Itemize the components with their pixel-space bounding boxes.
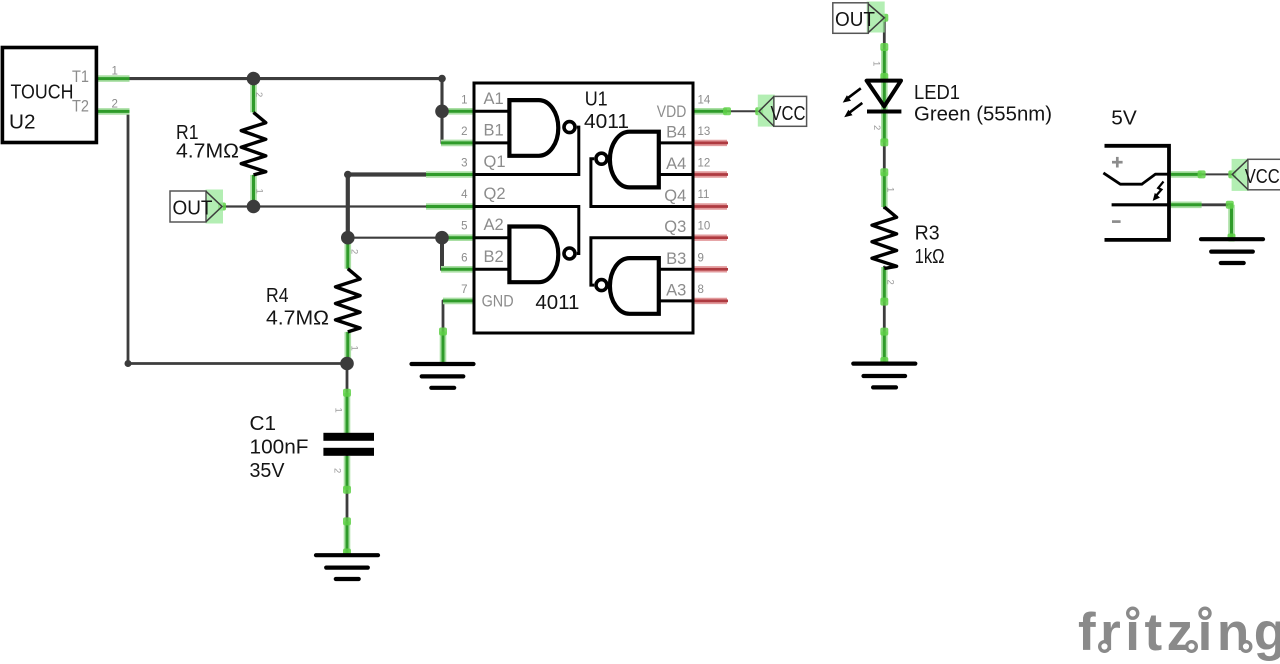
- touch sensor U2 box: [2, 48, 96, 143]
- svg-text:A3: A3: [666, 281, 686, 299]
- gate 3 output wire to Q2: [474, 207, 579, 254]
- svg-text:B1: B1: [484, 121, 504, 139]
- svg-text:OUT: OUT: [173, 197, 213, 220]
- wire C1 top: [346, 364, 349, 434]
- svg-text:B3: B3: [666, 250, 686, 268]
- svg-text:2: 2: [349, 249, 360, 254]
- svg-text:7: 7: [461, 284, 467, 296]
- resistor R4: [336, 269, 361, 332]
- resistor R1 pin bottom: [250, 175, 257, 207]
- wire 5V minus to ground: [1169, 205, 1232, 238]
- svg-text:4: 4: [461, 189, 468, 201]
- svg-text:B4: B4: [666, 123, 686, 141]
- ground under IC pin7: [412, 364, 474, 388]
- wire pin7 to ground: [442, 301, 445, 362]
- junction dot T1/R1: [247, 72, 261, 86]
- LED arrow 2: [844, 103, 862, 117]
- svg-text:Q4: Q4: [664, 187, 686, 205]
- ground under R3: [853, 364, 915, 388]
- resistor R1 pin top: [250, 79, 257, 113]
- svg-text:GND: GND: [482, 292, 514, 310]
- green LED pin 1: [881, 49, 888, 111]
- svg-text:LED1: LED1: [914, 81, 960, 104]
- svg-text:35V: 35V: [250, 459, 285, 482]
- svg-text:14: 14: [698, 94, 711, 106]
- svg-text:T1: T1: [72, 68, 89, 86]
- gate 4 input stubs: [659, 269, 693, 301]
- green wire pin7 ground end: [440, 332, 447, 366]
- svg-text:C1: C1: [250, 412, 277, 435]
- LED arrow 1: [843, 88, 861, 102]
- gate 3 bubble: [564, 248, 575, 259]
- svg-text:1kΩ: 1kΩ: [915, 245, 945, 268]
- svg-text:3: 3: [461, 158, 467, 170]
- wire R4 top junction to pin5 junction: [348, 237, 442, 239]
- svg-text:VCC: VCC: [771, 102, 806, 125]
- svg-text:11: 11: [698, 189, 710, 201]
- junction dot T2/R4/C1: [340, 357, 354, 371]
- svg-text:VCC: VCC: [1245, 165, 1280, 188]
- junction dot R4 top: [341, 231, 355, 245]
- svg-text:9: 9: [698, 252, 704, 264]
- svg-text:6: 6: [461, 252, 467, 264]
- LED LED1: [867, 81, 902, 112]
- green IC pin14 stub: [693, 108, 727, 115]
- svg-text:4011: 4011: [535, 291, 579, 314]
- wire T1 to IC pins 1/2: [97, 79, 442, 112]
- IC U1 4011 body: [474, 83, 693, 333]
- junction dot OUT/R1 bottom: [247, 200, 261, 214]
- gate 2 input stubs: [659, 143, 693, 175]
- net label OUT left: [170, 190, 223, 224]
- svg-text:1: 1: [461, 94, 467, 106]
- fritzing logo i-dot rings: [1124, 604, 1142, 622]
- svg-text:1: 1: [254, 189, 265, 194]
- svg-text:13: 13: [698, 126, 711, 138]
- green pin stub TOUCH T2: [96, 108, 130, 115]
- green wire 5V ground drop: [1230, 205, 1232, 239]
- red stub pin 12: [693, 171, 728, 177]
- svg-text:4011: 4011: [584, 110, 629, 133]
- resistor R4 pin bottom: [344, 332, 351, 364]
- corner dot pin3 wire bend: [344, 171, 352, 179]
- red stub pin 11: [693, 203, 728, 209]
- svg-text:A1: A1: [484, 90, 504, 108]
- svg-text:U2: U2: [9, 111, 36, 134]
- red stub pin 9: [693, 266, 728, 272]
- gate 1 bubble: [564, 122, 575, 133]
- svg-text:R4: R4: [266, 284, 289, 307]
- svg-text:12: 12: [698, 158, 711, 170]
- svg-text:2: 2: [332, 468, 343, 473]
- red stub pin 8: [693, 298, 728, 304]
- svg-text:1: 1: [349, 346, 360, 351]
- gate 1 input stubs: [474, 111, 509, 143]
- svg-text:R3: R3: [915, 221, 940, 244]
- junction dot pins 1-2: [435, 105, 449, 119]
- wire IC pin14 to VCC flag: [727, 110, 759, 112]
- op gate 2 NAND body mirrored: [610, 132, 659, 188]
- wire pin2 link: [442, 111, 474, 143]
- green wire C1 ground end: [344, 521, 351, 553]
- fritzing logo via circles: [1100, 642, 1110, 652]
- svg-text:4.7MΩ: 4.7MΩ: [266, 307, 329, 330]
- red stub pin 13: [693, 140, 728, 146]
- power supply 5V: [1103, 146, 1169, 240]
- svg-text:fritzing: fritzing: [1078, 603, 1280, 662]
- wire OUT flag to IC pin 4: [222, 205, 474, 207]
- resistor R4 pin top: [344, 238, 351, 269]
- svg-text:B2: B2: [484, 248, 504, 266]
- gate 2 output wire to Q4: [591, 159, 693, 207]
- svg-text:VDD: VDD: [657, 103, 687, 121]
- op gate 4 NAND body mirrored: [610, 258, 659, 314]
- red stub pin 10: [693, 234, 728, 240]
- svg-text:U1: U1: [585, 87, 608, 110]
- svg-text:A4: A4: [666, 155, 686, 173]
- wire 5V plus to VCC flag: [1169, 173, 1232, 175]
- svg-text:Q3: Q3: [664, 218, 686, 236]
- gate 4 output wire to Q3: [591, 238, 693, 285]
- gate 2 bubble: [596, 153, 607, 164]
- svg-text:2: 2: [253, 92, 264, 97]
- green capacitor C1 pin top: [344, 393, 351, 433]
- svg-text:1: 1: [871, 61, 882, 66]
- svg-text:10: 10: [698, 221, 711, 233]
- green wire 5V plus stub: [1169, 171, 1202, 178]
- net label OUT top right: [833, 2, 885, 34]
- green capacitor C1 pin bottom: [344, 456, 351, 490]
- green resistor R3 pin top: [881, 172, 888, 207]
- svg-text:Q1: Q1: [484, 153, 506, 171]
- svg-text:Green (555nm): Green (555nm): [914, 102, 1052, 125]
- wire pin6 link: [442, 238, 474, 270]
- gate 1 output wire to Q1: [474, 127, 579, 174]
- junction dot pins 5-6: [435, 231, 449, 245]
- svg-text:Q2: Q2: [484, 185, 506, 203]
- wire IC pin3 to R4 top: [348, 175, 474, 238]
- svg-text:A2: A2: [484, 216, 504, 234]
- ground under C1: [316, 555, 378, 579]
- op gate 1 NAND body: [509, 100, 558, 156]
- svg-text:100nF: 100nF: [250, 436, 309, 459]
- net label VCC at IC pin14: [758, 95, 807, 127]
- svg-text:5V: 5V: [1111, 107, 1137, 130]
- svg-text:4.7MΩ: 4.7MΩ: [176, 140, 239, 163]
- green pin stub TOUCH T1: [96, 75, 130, 82]
- gate 4 bubble: [596, 280, 607, 291]
- wire C1 bottom to ground: [346, 456, 349, 554]
- ground under 5V: [1201, 239, 1263, 263]
- green resistor R3 pin bottom: [881, 267, 888, 302]
- svg-text:2: 2: [885, 280, 896, 285]
- svg-text:1: 1: [112, 66, 118, 78]
- green wire 5V minus stub: [1169, 202, 1202, 209]
- svg-text:5: 5: [461, 221, 467, 233]
- op gate 3 NAND body: [509, 227, 558, 283]
- wire OUT2 flag to LED to R3 to ground: [883, 18, 886, 209]
- green LED pin 2: [881, 111, 888, 142]
- svg-text:1: 1: [885, 187, 896, 192]
- svg-text:TOUCH: TOUCH: [11, 81, 74, 104]
- svg-text:T2: T2: [72, 98, 89, 116]
- resistor R3: [872, 207, 897, 269]
- gate 3 input stubs: [474, 238, 509, 270]
- corner dot T2 wire bend: [125, 360, 132, 367]
- svg-text:2: 2: [461, 126, 467, 138]
- green IC pin stubs left rows 1-7: [426, 111, 474, 301]
- connection markers: [218, 14, 1236, 557]
- resistor R1: [241, 112, 266, 174]
- corner dot T1 wire bend: [438, 75, 446, 83]
- svg-text:2: 2: [871, 125, 882, 130]
- svg-text:1: 1: [333, 408, 344, 413]
- net label VCC at 5V: [1232, 159, 1280, 191]
- capacitor C1: [323, 433, 374, 441]
- svg-text:OUT: OUT: [835, 8, 875, 31]
- svg-text:2: 2: [112, 99, 118, 111]
- wire T2 to R4 bottom junction: [97, 111, 347, 363]
- svg-text:8: 8: [698, 284, 704, 296]
- green wire R3 ground end: [881, 332, 888, 362]
